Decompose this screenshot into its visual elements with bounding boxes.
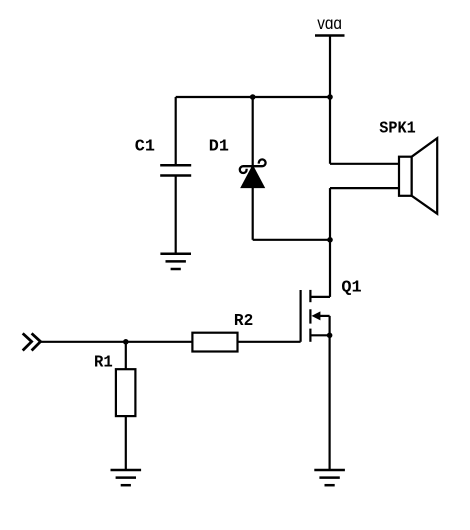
power symbol Vaa tee bar (315, 34, 345, 37)
transistor Q1 gate bar (300, 290, 302, 342)
speaker SPK1 body (399, 157, 412, 196)
svg-text:vɑɑ: vɑɑ (317, 13, 342, 33)
resistor R2 (192, 333, 237, 352)
wire D1 top lead (252, 97, 254, 167)
wire R2 to gate (238, 341, 301, 343)
transistor Q1 channel middle segment (309, 309, 311, 323)
wire speaker top tap (330, 163, 399, 165)
wire C1 bottom lead (175, 176, 177, 254)
diode D1 schottky cathode bar (240, 159, 266, 173)
wire drain lead (329, 240, 331, 297)
ground below C1 (160, 254, 191, 269)
transistor Q1 drain connection (310, 296, 330, 298)
wire D1 bottom lead (252, 187, 254, 240)
node R1 junction (123, 339, 129, 345)
wire junction to R1 (125, 342, 127, 369)
svg-text:C1: C1 (135, 136, 155, 155)
wire speaker bottom tap to drain node (329, 188, 331, 240)
wire D1 to drain node (253, 239, 330, 241)
node junction top D1 (250, 94, 256, 100)
wire speaker bottom tap (330, 187, 399, 189)
svg-text:SPK1: SPK1 (379, 118, 416, 137)
wire Vaa stem (329, 36, 331, 98)
node junction top right (327, 94, 333, 100)
wire input to R2 (41, 341, 193, 343)
ground below Q1 source (314, 470, 345, 485)
resistor R1 (116, 369, 135, 416)
svg-text:R1: R1 (94, 353, 113, 372)
wire top rail (176, 96, 330, 98)
wire C1 top lead (175, 97, 177, 165)
diode D1 anode triangle (242, 167, 263, 187)
transistor Q1 source connection (310, 334, 329, 336)
wire body to source (329, 316, 331, 335)
svg-text:R2: R2 (234, 311, 253, 330)
input port chevron (23, 333, 41, 350)
capacitor C1 (160, 165, 191, 175)
wire R1 to ground (125, 416, 127, 470)
speaker SPK1 cone (412, 138, 438, 214)
ground below R1 (111, 470, 142, 485)
transistor Q1 body arrow (320, 315, 330, 317)
wire right rail to speaker top tap (329, 97, 331, 164)
transistor Q1 channel bottom segment (309, 329, 311, 342)
svg-text:Q1: Q1 (341, 277, 361, 296)
node drain junction (327, 237, 333, 243)
svg-text:D1: D1 (209, 136, 229, 155)
transistor Q1 channel top segment (309, 290, 311, 302)
wire source lead down (329, 335, 331, 470)
node source junction (327, 333, 333, 339)
